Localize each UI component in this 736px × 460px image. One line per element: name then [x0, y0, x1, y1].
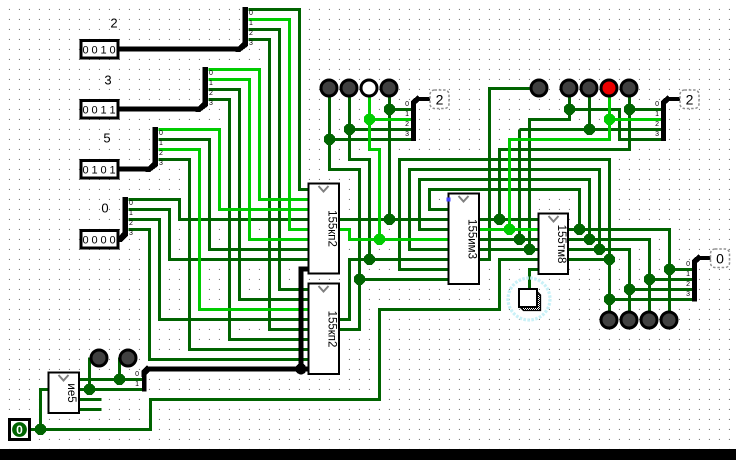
- svg-text:1: 1: [109, 105, 115, 117]
- wire counter pin4 stub: [80, 408, 102, 411]
- svg-text:2: 2: [129, 220, 133, 227]
- wire branch R4 to bus B2 row0: [630, 108, 662, 111]
- wire probe A1 down to IC2 output pin (339,329): [330, 97, 360, 330]
- svg-text:0: 0: [405, 101, 409, 108]
- probe C1 carry (off): [531, 80, 547, 96]
- push button shadow: [520, 292, 541, 311]
- display D2 value 2: [680, 90, 699, 109]
- wire register Q1 out to right LED column (649): [569, 240, 650, 312]
- svg-text:1: 1: [135, 381, 139, 388]
- wire row2 of bus B2: [520, 128, 662, 131]
- wire sum S1 loop to red probe R3: [510, 97, 610, 230]
- input word box 3: [81, 101, 118, 119]
- junction L1 probe at (89,389): [84, 384, 95, 395]
- wire register Q0 out to right LED column (669): [569, 230, 670, 312]
- junction A4 row0: [384, 104, 395, 115]
- wire E3 bit1 (1) to IC1 pin6: [209, 80, 310, 240]
- wire bus B3 row2: [630, 288, 693, 291]
- wire IC1 output (339,229) to adder pin4: [340, 230, 450, 240]
- wire black from input box 0 to bus expander E0: [119, 237, 122, 242]
- probe A1 (off): [321, 80, 337, 96]
- wire register Q2 out to right LED column (629): [569, 250, 630, 312]
- svg-text:3: 3: [686, 291, 690, 298]
- push button square: [519, 289, 537, 307]
- svg-text:1: 1: [129, 210, 133, 217]
- wire IC2 output (339,319) to adder pin6: [340, 260, 450, 320]
- svg-text:0: 0: [129, 200, 133, 207]
- svg-text:2: 2: [159, 150, 163, 157]
- IC5 counter ie5: [49, 373, 80, 414]
- wire register Q0 feedback to adder pin1: [430, 190, 580, 230]
- svg-text:3: 3: [104, 73, 111, 88]
- svg-text:1: 1: [100, 45, 106, 57]
- display D3 value 0: [711, 249, 730, 268]
- wire counter pin2 to bus B4 row1: [80, 388, 143, 391]
- wire E5 bit1 (0) to IC1 pin7: [159, 140, 310, 250]
- svg-text:155тм8: 155тм8: [555, 225, 567, 264]
- svg-text:2: 2: [249, 30, 253, 37]
- wire constant-0 net to register input: [41, 260, 540, 430]
- wire E2 bit3 (0) to IC2 pin5: [249, 40, 310, 330]
- constant-0 source box: [10, 420, 30, 440]
- probe R4 (off): [621, 80, 637, 96]
- wire E5 bit3 (0) to IC2 pin7: [159, 160, 310, 350]
- junction black select net: [296, 364, 307, 375]
- wire branch A2 to bus B1 row2: [350, 128, 412, 131]
- junction Q3 row3 at (609,299): [604, 294, 615, 305]
- svg-text:1: 1: [686, 271, 690, 278]
- wire register Q2 feedback to adder pin5: [410, 170, 600, 250]
- wire row3 of bus B3: [610, 298, 693, 301]
- junction Q0 at (579,229): [574, 224, 585, 235]
- svg-text:0: 0: [249, 10, 253, 17]
- input word box 0: [81, 231, 118, 249]
- IC2 multiplexer 155kp2: [309, 284, 340, 375]
- svg-text:1: 1: [209, 80, 213, 87]
- wire E0 bit3 (0) to IC2 pin8: [129, 230, 310, 360]
- probe A3 (on white): [361, 80, 377, 96]
- probe Q0 bottom (off): [601, 312, 617, 328]
- svg-text:0: 0: [82, 165, 88, 177]
- wire IC1 output (339,219) to adder pin2: [340, 218, 450, 221]
- wire register Q3 feedback to adder pin7: [400, 160, 610, 312]
- bus collector bar B4 (counter bus): [142, 373, 147, 392]
- svg-text:1: 1: [91, 165, 97, 177]
- junction R1 row arm: [564, 104, 575, 115]
- probe Q1 bottom (off): [621, 312, 637, 328]
- wire black bus B1 to display D1: [417, 97, 430, 101]
- svg-text:0: 0: [82, 235, 88, 247]
- wire probe R2 down to row2: [588, 97, 591, 130]
- junction Q3 at (609,259): [604, 254, 615, 265]
- probe A4 (off): [381, 80, 397, 96]
- svg-text:1: 1: [100, 105, 106, 117]
- svg-text:155кп2: 155кп2: [326, 210, 338, 247]
- wire branch A3 to bus B1 row1: [370, 118, 412, 121]
- wire E0 bit2 (0) to IC2 pin4: [129, 220, 310, 320]
- wire adder S1 (1) to register D1: [480, 228, 540, 231]
- svg-text:1: 1: [405, 111, 409, 118]
- input word box 2: [81, 41, 118, 59]
- wire register output arm to x609 vertical: [569, 258, 610, 261]
- wire E5 bit2 (1) to IC2 pin3: [159, 150, 310, 310]
- wire black bus B3 to display D3: [698, 256, 711, 260]
- svg-text:0: 0: [655, 101, 659, 108]
- probe R3 (on red): [601, 80, 617, 96]
- svg-text:3: 3: [655, 131, 659, 138]
- wire black select net from IC1 pin9 down to IC2 pin9: [301, 269, 309, 369]
- svg-text:0: 0: [82, 45, 88, 57]
- junction R4 row0: [624, 104, 635, 115]
- wire adder S2 to register D2: [480, 238, 540, 241]
- junction constant-0 at (40,429): [35, 424, 46, 435]
- wire bottom LED D1 stub: [608, 260, 611, 312]
- svg-text:1: 1: [249, 20, 253, 27]
- junction A4 on S?-net y219: [384, 214, 395, 225]
- junction A1 row3: [324, 134, 335, 145]
- wire register Q1 feedback to adder pin3: [420, 180, 590, 240]
- display D1 value 2: [430, 90, 449, 109]
- bus expander E5 bar: [153, 127, 159, 165]
- wire adder carry out to probe C1: [480, 89, 530, 260]
- junction A1 on y279: [354, 274, 365, 285]
- probe Q3 bottom (off): [661, 312, 677, 328]
- svg-text:0: 0: [159, 130, 163, 137]
- junction R2 row2: [584, 124, 595, 135]
- wire black from input box 5 to bus expander E5: [119, 167, 149, 172]
- probe L1 (off): [91, 350, 107, 366]
- bus expander E3 bar: [203, 67, 209, 105]
- wire probe R1 down jog to (529,249): [530, 97, 570, 250]
- svg-text:0: 0: [135, 371, 139, 378]
- WIRES-BRIGHT: [159, 20, 662, 310]
- wire bus B3 row1: [650, 278, 693, 281]
- svg-text:3: 3: [129, 230, 133, 237]
- wire branch R1 to bus B2 row3: [570, 110, 662, 140]
- probe Q2 bottom (off): [641, 312, 657, 328]
- wire branch R3 to bus B2 row1: [610, 118, 662, 121]
- junction Q2 at (599,249): [594, 244, 605, 255]
- wire E3 bit3 (0) to IC2 pin6: [209, 100, 310, 340]
- svg-text:3: 3: [405, 131, 409, 138]
- svg-text:1: 1: [159, 140, 163, 147]
- junction S2 net at (519,239): [514, 234, 525, 245]
- wire probe R4 down and sum S0 loop to (499,219): [500, 97, 630, 220]
- junction S3 net at (529,249): [524, 244, 535, 255]
- svg-text:2: 2: [209, 90, 213, 97]
- svg-text:0: 0: [716, 251, 724, 267]
- wire E3 bit2 (0) to IC2 pin2: [209, 90, 310, 300]
- wire E2 bit2 (0) to IC2 pin1: [249, 30, 310, 290]
- wire E2 bit0 (0) to IC1 pin1: [249, 10, 310, 190]
- svg-text:0: 0: [91, 105, 97, 117]
- wire branch A1 to bus B1 row3: [330, 138, 412, 141]
- bottom black strip: [0, 449, 736, 460]
- probe R2 (off): [581, 80, 597, 96]
- IC4 register 155tm8: [539, 214, 569, 275]
- probe R1 (off): [561, 80, 577, 96]
- wire E5 bit0 (1) to IC1 pin3: [159, 130, 310, 210]
- wire black from input box 3 to bus expander E3: [119, 107, 199, 112]
- probe L2 (off): [120, 350, 136, 366]
- svg-text:0: 0: [101, 201, 108, 216]
- bus collector bar B1 (left display): [411, 103, 416, 141]
- wire adder S0 to register D0: [480, 218, 540, 221]
- WIRES-BLACK: [117, 7, 711, 392]
- svg-text:1: 1: [109, 165, 115, 177]
- svg-text:2: 2: [655, 121, 659, 128]
- svg-text:ие5: ие5: [65, 383, 77, 402]
- input word box 5: [81, 161, 118, 179]
- junction Q1 at (589,239): [584, 234, 595, 245]
- junction R3 row1: [604, 114, 615, 125]
- wire counter pin1 to bus B4 row0: [80, 378, 143, 381]
- push button halo: [508, 278, 550, 320]
- bus expander E2 bar: [243, 7, 249, 45]
- svg-text:0: 0: [100, 235, 106, 247]
- wire black bus B2 to display D2: [667, 97, 681, 101]
- svg-text:0: 0: [109, 45, 115, 57]
- wire adder S3 to register D3: [480, 248, 540, 251]
- wire sum S2 loop (519,129)-(519,239): [518, 130, 521, 240]
- wire constant-0 box stub: [30, 428, 41, 431]
- wire E0 bit0 (0) to IC1 pin4: [129, 200, 310, 220]
- svg-text:0: 0: [109, 235, 115, 247]
- IC1 multiplexer 155kp2: [309, 184, 340, 274]
- svg-text:3: 3: [209, 100, 213, 107]
- svg-text:0: 0: [82, 105, 88, 117]
- blue pin marker on IC3 pin1: [447, 198, 451, 202]
- svg-text:155кп2: 155кп2: [326, 311, 338, 348]
- svg-text:2: 2: [686, 281, 690, 288]
- svg-text:0: 0: [16, 423, 23, 437]
- junction A3 row1: [364, 114, 375, 125]
- wire probe A2 down to IC2 output pin (339,319): [350, 97, 370, 260]
- junction S1 net at (509,229): [504, 224, 515, 235]
- svg-text:0: 0: [100, 165, 106, 177]
- junction A2 on y259: [364, 254, 375, 265]
- wire branch A4 to bus B1 row0: [390, 108, 412, 111]
- svg-text:1: 1: [655, 111, 659, 118]
- wire black from input box 2 to bus expander E2: [119, 47, 239, 52]
- svg-text:155им3: 155им3: [466, 219, 478, 259]
- svg-text:0: 0: [686, 261, 690, 268]
- junction L2 probe at (119,379): [114, 374, 125, 385]
- wire counter pin3 stub: [80, 398, 102, 401]
- svg-text:3: 3: [249, 40, 253, 47]
- probe A2 (off): [341, 80, 357, 96]
- wire probe A4 down through row0 junction: [388, 97, 391, 220]
- svg-text:0: 0: [91, 235, 97, 247]
- junction S0 net at (499,219): [494, 214, 505, 225]
- svg-text:0: 0: [209, 70, 213, 77]
- IC3 adder 155im3: [449, 194, 480, 285]
- svg-text:0: 0: [91, 45, 97, 57]
- svg-text:5: 5: [103, 131, 110, 146]
- wire E3 bit0 (1) to IC1 pin2: [209, 70, 310, 200]
- wire bus B3 row0: [670, 268, 693, 271]
- junction B3 row1 at (649,279): [644, 274, 655, 285]
- bus collector bar B3 (register display): [692, 262, 697, 302]
- junction B3 row2 at (629,289): [624, 284, 635, 295]
- svg-text:2: 2: [405, 121, 409, 128]
- svg-text:2: 2: [686, 92, 694, 108]
- wire probe L1 stub: [88, 358, 91, 390]
- wire branch A1 to adder pin8: [360, 278, 450, 281]
- wire E2 bit1 (1) to IC1 pin5: [249, 20, 310, 230]
- bus collector bar B2 (right top display): [661, 103, 666, 141]
- junction A3 on bright y239: [374, 234, 385, 245]
- wire black select net from counter bus bar to IC2 pin9: [146, 367, 309, 372]
- wire E0 bit1 (0) to IC1 pin8: [129, 210, 310, 260]
- junction B3 row0 at (669,269): [664, 264, 675, 275]
- svg-text:2: 2: [110, 16, 117, 31]
- bus expander E0 bar: [123, 197, 129, 235]
- wire probe L2 stub: [118, 358, 121, 380]
- svg-text:2: 2: [436, 92, 444, 108]
- wire probe A3 (lit) down to bright junction (379,239): [370, 97, 380, 240]
- svg-text:3: 3: [159, 160, 163, 167]
- wire push button to register clock pin: [530, 270, 540, 290]
- junction A2 row2: [344, 124, 355, 135]
